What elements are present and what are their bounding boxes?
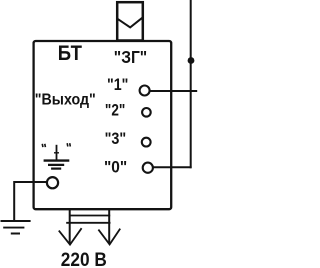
arrowhead right (98, 229, 120, 245)
svg-text:"1": "1" (107, 76, 128, 94)
wire from jack 0 to bus (153, 166, 192, 168)
output jack 2 (142, 108, 151, 117)
svg-text:БТ: БТ (58, 41, 82, 65)
svg-text:"0": "0" (104, 158, 127, 176)
svg-text:"2": "2" (105, 102, 125, 120)
chassis ground symbol (in quotes) (44, 145, 70, 169)
right quote of ground label (67, 143, 70, 146)
output jack 3 (142, 138, 151, 147)
cord rung lower (66, 222, 110, 224)
vertical bus wire (190, 0, 192, 168)
cord rung upper (69, 215, 110, 217)
connector chevron (118, 17, 144, 27)
output jack 0 (143, 163, 153, 173)
arrowhead left (59, 228, 82, 244)
svg-text:"3": "3" (105, 130, 127, 148)
wire terminal to earth (14, 182, 46, 221)
svg-text:"ЗГ": "ЗГ" (114, 47, 147, 67)
svg-text:"Выход": "Выход" (35, 92, 96, 109)
wire from jack 1 to bus (150, 90, 197, 92)
svg-text:220 В: 220 В (61, 250, 107, 268)
earth ground symbol (1, 221, 31, 234)
output jack 1 (140, 86, 150, 96)
mains cord left conductor (69, 210, 71, 244)
junction dot (188, 57, 195, 64)
ground terminal (47, 177, 58, 188)
mains cord right conductor (108, 210, 110, 244)
mains connector X1 (117, 2, 143, 40)
left quote of ground label (42, 144, 45, 147)
unit enclosure БТ (34, 41, 172, 209)
